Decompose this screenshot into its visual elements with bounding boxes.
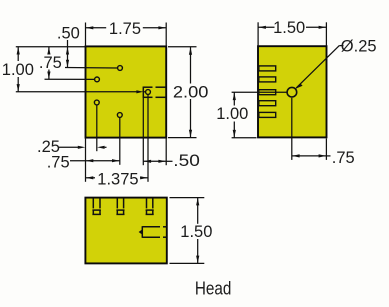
svg-text:.75: .75 xyxy=(39,54,62,72)
svg-text:Ø.25: Ø.25 xyxy=(341,38,377,56)
svg-text:.50: .50 xyxy=(57,25,80,43)
svg-text:.75: .75 xyxy=(332,149,355,167)
svg-text:.75: .75 xyxy=(47,153,70,171)
svg-text:1.50: 1.50 xyxy=(180,223,212,241)
svg-text:1.50: 1.50 xyxy=(273,19,305,37)
svg-text:1.375: 1.375 xyxy=(97,171,138,189)
svg-text:1.75: 1.75 xyxy=(109,20,141,38)
svg-text:1.00: 1.00 xyxy=(2,61,34,79)
svg-text:2.00: 2.00 xyxy=(173,83,209,101)
svg-text:1.00: 1.00 xyxy=(216,105,248,123)
svg-text:Head: Head xyxy=(195,279,232,300)
svg-text:.50: .50 xyxy=(173,152,200,170)
